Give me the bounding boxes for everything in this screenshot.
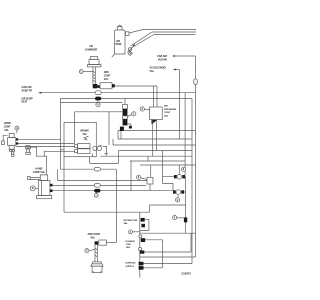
fitting white oval bbox=[95, 91, 101, 95]
svg-text:VAL: VAL bbox=[164, 115, 169, 118]
wire bus 139 bbox=[118, 131, 192, 140]
dark triangle bbox=[152, 120, 158, 125]
wire bus 156 (brake outlet) bbox=[100, 155, 192, 157]
svg-text:CONTROL: CONTROL bbox=[125, 263, 136, 265]
junction circle 2 bbox=[139, 247, 142, 250]
brake valve body bbox=[78, 144, 90, 149]
wire vertical x74 bbox=[74, 112, 76, 144]
svg-text:VAL: VAL bbox=[91, 236, 96, 239]
air bell bbox=[93, 262, 102, 264]
air tank cap bbox=[118, 25, 123, 30]
callout B bbox=[140, 107, 144, 111]
coupler bbox=[26, 146, 31, 149]
wire supply line 2 bbox=[131, 32, 197, 46]
node VS SOLENOID VAL arrow bbox=[176, 69, 180, 71]
dark comp on drop bbox=[184, 217, 187, 222]
wire bus 165 bbox=[140, 164, 196, 166]
svg-text:SEAT: SEAT bbox=[21, 101, 28, 104]
callout 1 bbox=[79, 70, 83, 74]
elbow dark bbox=[93, 84, 98, 88]
callout 8 bbox=[182, 167, 186, 171]
wire mid-bottom links bbox=[64, 157, 186, 213]
square valve bbox=[147, 177, 153, 184]
valve V2 bbox=[173, 190, 176, 193]
bottom right column bbox=[139, 212, 141, 277]
callout 7 bbox=[95, 193, 97, 194]
wire below press box bbox=[153, 120, 157, 157]
tank drain valve bbox=[128, 48, 131, 51]
wire hv1 out2 bbox=[18, 142, 74, 144]
fitting A + loop bbox=[141, 218, 145, 222]
stack lower dark bbox=[120, 127, 124, 131]
wire bus 150.5 bbox=[119, 150, 192, 152]
U pipe under brake valve bbox=[90, 151, 119, 164]
svg-text:SUPPLY: SUPPLY bbox=[126, 266, 135, 268]
wire bus 161 bbox=[130, 156, 185, 161]
svg-text:VAL: VAL bbox=[4, 129, 9, 132]
wire bus 145 bbox=[113, 139, 196, 145]
air pressure cont val box bbox=[150, 107, 163, 120]
brake pedal bbox=[84, 136, 89, 140]
valve V1 bbox=[174, 175, 177, 178]
wire v1 feed bbox=[178, 165, 180, 174]
svg-text:VAL: VAL bbox=[104, 78, 109, 81]
svg-text:PRESSURE: PRESSURE bbox=[164, 109, 177, 111]
wire air susp seat line bbox=[60, 98, 192, 100]
wire hv1 out3 bbox=[16, 145, 75, 147]
air tank bbox=[115, 30, 126, 54]
tank outlet fitting bbox=[126, 32, 130, 36]
junction circle bbox=[139, 235, 142, 238]
hv1 bracket bbox=[3, 135, 7, 141]
callout 4b bbox=[129, 230, 133, 234]
inline orifice fitting bbox=[194, 79, 197, 85]
ABS cont val 1 bbox=[100, 83, 112, 89]
fitting dark oval bbox=[95, 97, 101, 101]
wire cab air susp fr line bbox=[42, 92, 196, 94]
relay valve stack bbox=[124, 99, 126, 105]
wire twin drop to press val bbox=[154, 86, 158, 107]
wire hv1 out1 bbox=[18, 138, 60, 140]
wire into relay stack bbox=[60, 102, 122, 104]
wire square feed bbox=[150, 165, 152, 177]
wire 233 bbox=[140, 232, 196, 234]
tank bottom tick bbox=[112, 54, 115, 57]
svg-text:VAL: VAL bbox=[124, 222, 129, 225]
abs2 tube bbox=[95, 245, 97, 262]
hv1 ports bbox=[16, 138, 18, 140]
svg-text:VAL: VAL bbox=[126, 246, 131, 249]
svg-text:DOUBLE: DOUBLE bbox=[126, 241, 136, 243]
svg-text:AIR: AIR bbox=[116, 40, 120, 43]
stack bracket bbox=[127, 124, 130, 128]
callout 4 bbox=[97, 100, 99, 102]
fitting E bbox=[140, 251, 145, 254]
wire corner drop 131 bbox=[130, 161, 132, 191]
callout A bbox=[132, 112, 136, 116]
svg-text:SUS RK: SUS RK bbox=[158, 59, 167, 62]
wire line 180.5 bbox=[58, 169, 147, 180]
wire right main vertical bbox=[118, 56, 196, 257]
callout 9 bbox=[177, 195, 179, 197]
wire vertical x109 bbox=[108, 112, 110, 145]
svg-text:CHAMBER: CHAMBER bbox=[85, 49, 97, 52]
svg-text:SUSP FR: SUSP FR bbox=[22, 89, 33, 92]
fitting B bbox=[141, 224, 145, 228]
svg-text:VAL: VAL bbox=[83, 133, 88, 136]
node CAB AIR SUS RK arrow bbox=[175, 55, 196, 57]
callout 3 bbox=[85, 249, 89, 253]
wire hv2 out2 bbox=[53, 190, 174, 192]
svg-text:CHE: CHE bbox=[126, 244, 131, 246]
brake rollers bbox=[93, 146, 97, 150]
wire drop x116 bbox=[115, 169, 117, 242]
wire vs solenoid vertical bbox=[179, 70, 181, 140]
svg-text:CONT: CONT bbox=[164, 112, 171, 114]
wire hv2 out1 bbox=[53, 184, 147, 186]
brake val box bbox=[64, 122, 96, 156]
wire supply line 1 bbox=[129, 30, 196, 34]
wire left drop bbox=[60, 99, 64, 170]
fittings F G bbox=[139, 262, 144, 266]
wire coupler jog bbox=[30, 147, 74, 175]
svg-text:B: B bbox=[32, 187, 34, 190]
svg-text:RETRACTOR: RETRACTOR bbox=[124, 219, 138, 222]
svg-text:TANK: TANK bbox=[115, 43, 122, 46]
svg-text:C5D472: C5D472 bbox=[181, 272, 191, 276]
FB chamber tube bbox=[93, 67, 95, 85]
fitting D bbox=[141, 238, 145, 242]
svg-text:AIR: AIR bbox=[164, 105, 168, 108]
wire abs output bbox=[115, 85, 157, 87]
svg-text:VAL: VAL bbox=[150, 70, 155, 73]
svg-text:CONT VAL: CONT VAL bbox=[33, 171, 46, 174]
wire supply line 3 bbox=[132, 35, 196, 48]
wire line 169 bbox=[60, 168, 116, 170]
